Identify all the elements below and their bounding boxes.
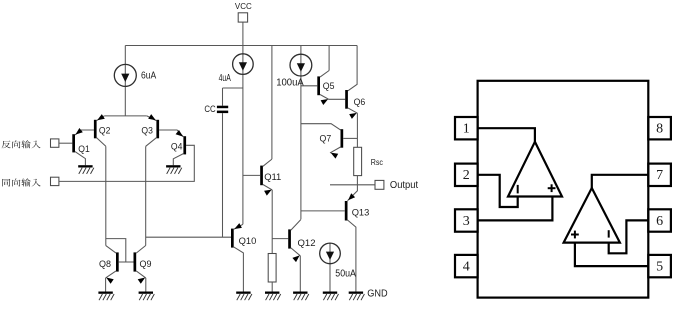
svg-text:6uA: 6uA <box>141 70 156 81</box>
svg-text:50uA: 50uA <box>335 269 356 280</box>
svg-text:Q3: Q3 <box>141 126 153 137</box>
svg-text:Q4: Q4 <box>171 141 183 152</box>
svg-text:CC: CC <box>204 104 216 114</box>
svg-text:Q2: Q2 <box>99 126 111 137</box>
svg-text:4: 4 <box>463 259 470 274</box>
svg-text:GND: GND <box>367 287 388 299</box>
svg-text:6: 6 <box>656 214 663 229</box>
svg-text:Q10: Q10 <box>239 236 257 247</box>
svg-text:7: 7 <box>656 168 663 183</box>
svg-text:Q8: Q8 <box>99 259 111 270</box>
svg-text:Q12: Q12 <box>298 238 316 249</box>
svg-text:4uA: 4uA <box>219 73 231 84</box>
svg-text:Q11: Q11 <box>264 172 281 183</box>
svg-text:Q5: Q5 <box>323 81 335 92</box>
svg-text:Q13: Q13 <box>352 207 370 218</box>
svg-text:Q9: Q9 <box>140 259 152 270</box>
svg-text:VCC: VCC <box>235 1 252 11</box>
svg-text:Q1: Q1 <box>78 144 90 155</box>
svg-text:Rsc: Rsc <box>371 157 384 167</box>
svg-text:Output: Output <box>390 180 418 191</box>
svg-text:8: 8 <box>656 122 663 137</box>
svg-text:3: 3 <box>463 214 470 229</box>
svg-text:100uA: 100uA <box>276 77 304 88</box>
svg-text:Q7: Q7 <box>320 134 332 145</box>
svg-text:Q6: Q6 <box>354 97 366 108</box>
svg-text:2: 2 <box>463 168 470 183</box>
svg-text:5: 5 <box>656 259 663 274</box>
svg-text:1: 1 <box>463 122 470 137</box>
